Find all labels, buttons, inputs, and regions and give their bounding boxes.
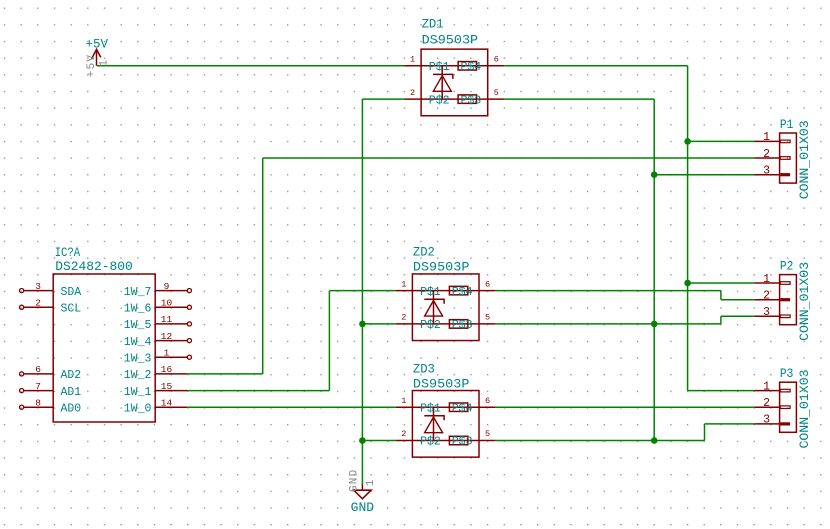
svg-text:2: 2	[401, 429, 406, 439]
wire riser to ZD2 pin1	[329, 290, 395, 292]
ZD2 body outline	[412, 274, 479, 341]
ZD1 pin 1 (P$1)	[405, 55, 450, 75]
ZD2 resistor bottom	[449, 320, 467, 329]
wire GND rail to ZD3 pin2	[362, 440, 395, 442]
svg-text:ZD1: ZD1	[422, 17, 444, 32]
svg-text:SDA: SDA	[61, 286, 82, 299]
svg-text:6: 6	[35, 364, 41, 375]
svg-text:2: 2	[763, 290, 770, 303]
svg-text:IC?A: IC?A	[55, 245, 81, 260]
wire riser to P2 pin3	[721, 315, 754, 317]
wire +5V horizontal to ZD1 pin1	[97, 65, 405, 67]
svg-text:P$1: P$1	[429, 61, 450, 74]
svg-text:P1: P1	[780, 117, 794, 132]
svg-text:1: 1	[401, 396, 406, 406]
wire IC pin15 riser	[328, 291, 330, 391]
wire IC pin16 horizontal	[187, 373, 262, 375]
IC pin 8 (AD0)	[20, 397, 82, 415]
ZD3 zener cathode bar	[424, 416, 444, 421]
svg-text:15: 15	[161, 381, 173, 392]
wire ZD1 pin6 to +5V vertical bus	[504, 65, 687, 67]
ZD3 zener vertical lead	[433, 407, 435, 440]
ZD1 pin 6 (P$4)	[460, 55, 504, 75]
svg-text:1W_0: 1W_0	[124, 403, 152, 416]
svg-text:5: 5	[485, 313, 490, 323]
IC pin 9 (1W_7)	[124, 281, 192, 299]
svg-text:P$4: P$4	[452, 286, 473, 299]
wire riser to P3 pin3	[705, 423, 755, 425]
svg-text:2: 2	[763, 148, 770, 161]
P2 body outline	[780, 275, 797, 325]
svg-text:ZD2: ZD2	[413, 244, 435, 259]
ground GND symbol	[348, 469, 377, 515]
svg-text:2: 2	[401, 313, 406, 323]
ZD1 zener cathode bar	[433, 74, 453, 79]
svg-text:1: 1	[410, 55, 415, 65]
svg-text:AD2: AD2	[61, 369, 82, 382]
protection diode ZD1 DS9503P	[405, 17, 505, 116]
IC pin 12 (1W_4)	[124, 331, 192, 349]
P2 pin 1	[754, 273, 790, 286]
connector P1 CONN_01X03	[754, 117, 812, 200]
junction +5V bus / P2 pin1	[684, 280, 691, 287]
wire return vertical bus	[653, 99, 655, 440]
junction return bus / P1 pin3	[651, 171, 658, 178]
svg-text:P$2: P$2	[429, 94, 450, 107]
P3 pin 2	[754, 397, 790, 410]
wire IC pin14 to ZD3 pin1	[187, 406, 395, 408]
svg-text:9: 9	[164, 281, 170, 292]
ZD3 internal bottom rail	[412, 440, 479, 442]
wire P2 pin3 riser	[720, 316, 722, 324]
ZD2 internal bottom rail	[412, 323, 479, 325]
svg-text:ZD3: ZD3	[413, 361, 435, 376]
IC IC?A DS2482-800	[20, 245, 192, 422]
wire +5V bus to P3 pin1	[688, 390, 755, 392]
ZD3 pin 6 (P$4)	[452, 396, 496, 416]
svg-text:5: 5	[494, 88, 499, 98]
svg-text:DS9503P: DS9503P	[422, 32, 479, 47]
svg-text:1: 1	[99, 59, 111, 67]
svg-text:2: 2	[410, 88, 415, 98]
svg-text:1: 1	[164, 347, 170, 358]
ZD2 pin 5 (P$3)	[452, 313, 496, 333]
P1 body outline	[780, 133, 797, 183]
ZD1 internal bottom rail	[421, 98, 488, 100]
wire ZD1 pin5 horizontal	[504, 98, 654, 100]
IC body outline	[53, 274, 155, 422]
junction +5V bus / P1 pin1	[684, 138, 691, 145]
connector P3 CONN_01X03	[754, 366, 812, 449]
svg-text:DS9503P: DS9503P	[413, 376, 470, 391]
ZD3 resistor top	[449, 403, 467, 412]
svg-text:P2: P2	[780, 258, 794, 273]
ZD2 pin 2 (P$2)	[396, 313, 441, 333]
connector P2 CONN_01X03	[754, 258, 812, 341]
IC pin 11 (1W_5)	[124, 314, 192, 332]
svg-text:2: 2	[35, 298, 41, 309]
svg-text:CONN_01X03: CONN_01X03	[797, 370, 812, 449]
wire IC pin16 riser	[262, 158, 264, 374]
svg-text:1: 1	[401, 279, 406, 289]
svg-text:14: 14	[161, 397, 173, 408]
svg-text:3: 3	[763, 165, 770, 178]
svg-text:+5V: +5V	[86, 54, 98, 77]
ZD3 body outline	[412, 391, 479, 458]
svg-text:AD0: AD0	[61, 403, 82, 416]
svg-text:1W_7: 1W_7	[124, 286, 152, 299]
IC pin 2 (SCL)	[20, 298, 82, 316]
svg-text:+5V: +5V	[86, 36, 109, 51]
wire ZD2 pin5 horizontal	[496, 323, 721, 325]
svg-text:CONN_01X03: CONN_01X03	[797, 262, 812, 341]
svg-text:AD1: AD1	[61, 386, 82, 399]
junction GND rail / ZD3 pin2	[359, 437, 366, 444]
wire ZD3 pin5 horizontal	[496, 440, 705, 442]
IC pin 14 (1W_0)	[124, 397, 188, 415]
ZD2 resistor top	[449, 286, 467, 295]
P2 pin 3	[754, 306, 790, 319]
svg-text:1: 1	[365, 478, 377, 486]
ZD2 internal top rail	[412, 290, 479, 292]
ZD1 resistor bottom	[458, 95, 476, 104]
IC pin 15 (1W_1)	[124, 381, 188, 399]
svg-text:P$4: P$4	[460, 61, 481, 74]
protection diode ZD3 DS9503P	[396, 361, 496, 457]
wire return bus to P1 pin3	[654, 174, 754, 176]
wire ZD1 pin2 to GND rail	[362, 98, 404, 100]
svg-text:P$1: P$1	[420, 286, 441, 299]
svg-text:1: 1	[763, 273, 770, 286]
wire IC pin15 horizontal	[187, 390, 329, 392]
svg-text:P$3: P$3	[460, 94, 481, 107]
ZD1 zener triangle	[433, 76, 451, 92]
svg-text:P$3: P$3	[452, 319, 473, 332]
svg-text:12: 12	[161, 331, 173, 342]
svg-text:1W_4: 1W_4	[124, 336, 152, 349]
ZD3 internal top rail	[412, 406, 479, 408]
svg-text:3: 3	[763, 306, 770, 319]
junction GND rail / ZD2 pin2	[359, 321, 366, 328]
IC pin 6 (AD2)	[20, 364, 82, 382]
wire P3 pin3 riser	[704, 424, 706, 441]
P3 pin 3	[754, 414, 790, 427]
svg-text:2: 2	[763, 397, 770, 410]
svg-text:SCL: SCL	[61, 303, 82, 316]
IC pin 1 (1W_3)	[124, 347, 192, 365]
ZD1 resistor top	[458, 62, 476, 71]
svg-text:3: 3	[35, 281, 41, 292]
wire +5V bus to P2 pin1	[688, 282, 755, 284]
svg-text:3: 3	[763, 414, 770, 427]
ZD3 pin 2 (P$2)	[396, 429, 441, 449]
svg-text:11: 11	[161, 314, 173, 325]
wire GND vertical rail	[361, 99, 363, 484]
svg-text:16: 16	[161, 364, 173, 375]
wire GND rail to ZD2 pin2	[362, 323, 395, 325]
wire ZD3 pin6 to P3 pin2	[496, 406, 755, 408]
svg-text:P$1: P$1	[420, 402, 441, 415]
IC pin 10 (1W_6)	[124, 298, 192, 316]
wire +5V vertical bus	[687, 66, 689, 391]
svg-text:P3: P3	[780, 366, 794, 381]
svg-text:1: 1	[763, 380, 770, 393]
svg-text:P$3: P$3	[452, 436, 473, 449]
svg-text:8: 8	[35, 397, 41, 408]
JUNCTIONS	[359, 138, 691, 444]
ZD3 zener triangle	[425, 417, 443, 433]
svg-text:1: 1	[763, 131, 770, 144]
power +5V symbol	[86, 36, 111, 77]
svg-text:GND: GND	[351, 500, 375, 515]
IC pin 16 (1W_2)	[124, 364, 188, 382]
svg-text:7: 7	[35, 381, 41, 392]
svg-text:DS9503P: DS9503P	[413, 260, 470, 275]
junction return bus / ZD3 pin5	[651, 437, 658, 444]
wire riser to P1 pin2	[263, 157, 755, 159]
IC pin 3 (SDA)	[20, 281, 82, 299]
ZD1 pin 5 (P$3)	[460, 88, 504, 108]
svg-text:1W_5: 1W_5	[124, 319, 152, 332]
junction return bus / ZD2 pin5	[651, 321, 658, 328]
wire +5V bus to P1 pin1	[688, 140, 755, 142]
P1 pin 2	[754, 148, 790, 161]
svg-text:DS2482-800: DS2482-800	[55, 259, 133, 274]
ZD2 pin 1 (P$1)	[396, 279, 441, 299]
svg-text:P$2: P$2	[420, 436, 441, 449]
P2 pin 2	[754, 290, 790, 303]
svg-text:CONN_01X03: CONN_01X03	[797, 120, 812, 199]
ZD1 internal top rail	[421, 65, 488, 67]
wire P2 pin2 dropper	[720, 291, 722, 300]
ZD2 pin 6 (P$4)	[452, 279, 496, 299]
svg-text:P$2: P$2	[420, 319, 441, 332]
P3 body outline	[780, 382, 797, 432]
ZD2 zener vertical lead	[433, 291, 435, 324]
svg-text:1W_2: 1W_2	[124, 369, 152, 382]
svg-text:1W_6: 1W_6	[124, 303, 152, 316]
protection diode ZD2 DS9503P	[396, 244, 496, 340]
P3 pin 1	[754, 380, 790, 393]
svg-text:6: 6	[485, 396, 490, 406]
ZD3 pin 5 (P$3)	[452, 429, 496, 449]
wire dropper to P2 pin2	[721, 299, 754, 301]
svg-text:P$4: P$4	[452, 402, 473, 415]
ZD2 zener cathode bar	[424, 299, 444, 304]
ZD3 resistor bottom	[449, 436, 467, 445]
svg-text:1W_1: 1W_1	[124, 386, 152, 399]
ZD2 zener triangle	[425, 301, 443, 317]
ZD3 pin 1 (P$1)	[396, 396, 441, 416]
svg-text:10: 10	[161, 298, 173, 309]
P1 pin 3	[754, 165, 790, 178]
P1 pin 1	[754, 131, 790, 144]
ZD1 body outline	[421, 49, 488, 116]
svg-text:1W_3: 1W_3	[124, 353, 152, 366]
svg-text:GND: GND	[348, 469, 360, 492]
svg-text:6: 6	[494, 55, 499, 65]
svg-text:5: 5	[485, 429, 490, 439]
IC pin 7 (AD1)	[20, 381, 82, 399]
svg-text:6: 6	[485, 279, 490, 289]
wire ZD2 pin6 horizontal	[496, 290, 721, 292]
ZD1 zener vertical lead	[441, 66, 443, 99]
ZD1 pin 2 (P$2)	[405, 88, 450, 108]
